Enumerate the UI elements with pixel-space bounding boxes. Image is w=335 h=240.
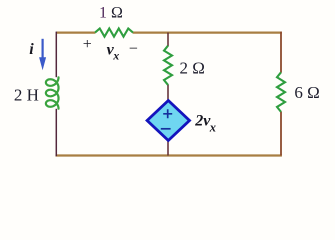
inductor L1 2H coil [46,77,59,108]
svg-text:−: − [129,40,138,57]
svg-text:1 Ω: 1 Ω [99,5,123,22]
resistor R2 2ohm zigzag [164,46,172,85]
wire middle lower stub [167,140,169,156]
dependent source diamond 2vx [147,101,189,141]
minus sign inside source [161,128,171,130]
wire top left segment [56,31,95,33]
resistor R3 6ohm zigzag [277,72,285,112]
wire top right segment [133,31,282,33]
wire middle between resistor and source [167,85,169,102]
wire bottom [56,154,282,156]
wire left upper [55,32,57,78]
svg-text:i: i [29,41,34,58]
wire right upper [280,32,282,73]
wire middle upper stub [167,33,169,47]
plus sign inside source [163,109,172,118]
svg-text:x: x [209,120,216,134]
svg-text:x: x [112,48,119,62]
wire right lower [280,112,282,156]
svg-text:+: + [83,36,92,53]
svg-text:2v: 2v [194,112,211,129]
svg-text:2 H: 2 H [14,85,39,104]
resistor R1 1ohm zigzag [95,29,133,37]
current arrow i [41,39,43,60]
wire left lower [55,109,57,156]
svg-text:6 Ω: 6 Ω [294,83,319,102]
svg-text:2 Ω: 2 Ω [180,59,205,78]
